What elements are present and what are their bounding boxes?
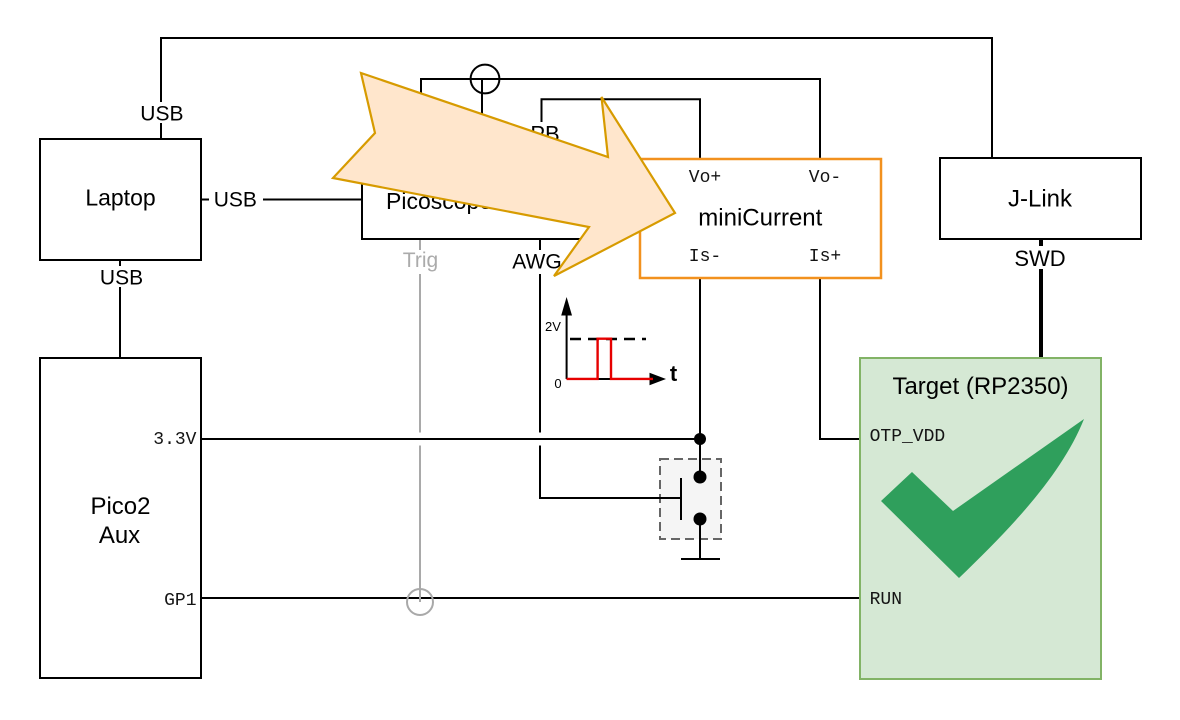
svg-text:Target (RP2350): Target (RP2350) [892,373,1068,400]
svg-text:Vo+: Vo+ [689,168,721,188]
svg-text:Is+: Is+ [809,247,841,267]
svg-text:USB: USB [214,189,257,212]
svg-text:SWD: SWD [1014,246,1065,271]
svg-text:Laptop: Laptop [85,185,155,211]
svg-text:GP1: GP1 [164,591,196,611]
svg-text:RUN: RUN [870,590,902,610]
svg-text:Is-: Is- [689,247,721,267]
svg-text:J-Link: J-Link [1008,186,1073,213]
svg-text:OTP_VDD: OTP_VDD [870,427,946,447]
svg-text:2V: 2V [545,319,561,334]
svg-text:Vo-: Vo- [809,168,841,188]
svg-text:Trig: Trig [403,249,438,272]
svg-text:miniCurrent: miniCurrent [698,205,822,232]
svg-text:t: t [670,361,678,386]
svg-text:AWG: AWG [512,251,561,274]
svg-text:Aux: Aux [99,522,140,549]
svg-text:3.3V: 3.3V [153,430,196,450]
svg-text:Pico2: Pico2 [90,493,150,520]
svg-text:0: 0 [554,376,561,391]
svg-text:USB: USB [100,267,143,290]
svg-text:USB: USB [140,103,183,126]
